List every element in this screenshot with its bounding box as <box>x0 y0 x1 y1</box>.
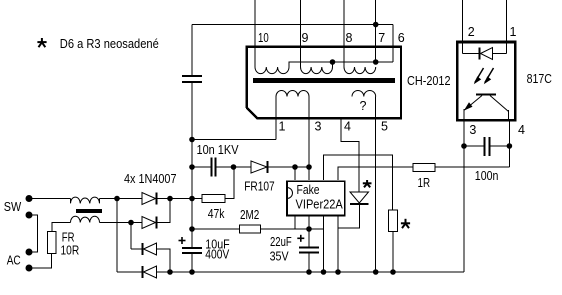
junction pin7 y24 <box>373 22 379 28</box>
junction x131 y222 <box>128 220 134 226</box>
wire choke bottom right <box>100 222 143 224</box>
choke core bar <box>76 209 102 213</box>
wire pin9 top <box>300 0 302 67</box>
optocoupler U2 817C box <box>457 42 515 120</box>
transformer winding 8-7 (top right) <box>344 67 376 74</box>
opto pin4 wire down <box>508 120 510 146</box>
wire D3 anode down <box>157 249 171 272</box>
svg-text:1: 1 <box>510 25 517 39</box>
svg-text:400V: 400V <box>205 247 230 261</box>
svg-text:22uF: 22uF <box>270 235 292 249</box>
opto phototransistor <box>476 94 496 96</box>
wire top horizontal bus y24 <box>192 24 393 26</box>
diode D6 (not fitted) <box>350 191 369 193</box>
wire pin1 horizontal y139 <box>192 139 276 141</box>
wire D2 cathode up <box>158 199 171 223</box>
junction x464 y146 <box>461 143 467 149</box>
wire pin6 <box>392 25 394 63</box>
junction x393 y272 <box>390 269 396 275</box>
junction x375 y272 <box>373 269 379 275</box>
capacitor 10uF 400V <box>182 247 202 249</box>
resistor R3 (not fitted) <box>389 210 398 232</box>
star D6 <box>363 180 372 187</box>
junction x295 y167 <box>292 164 298 170</box>
viper bottom pin x338 <box>337 216 339 273</box>
plus sign 10uF <box>179 237 186 244</box>
junction x192 y198 <box>189 196 195 202</box>
junction x309 y229 <box>306 226 312 232</box>
legend star <box>37 38 46 47</box>
junction x309 y167 <box>306 164 312 170</box>
viper bottom pin x309 with 22uF <box>308 216 310 247</box>
svg-text:10n 1KV: 10n 1KV <box>197 143 240 157</box>
transformer T1 CH-2012 body <box>247 47 401 119</box>
transformer winding ? (bottom right, open left end) <box>352 90 376 96</box>
svg-text:SW: SW <box>4 200 22 214</box>
svg-text:100n: 100n <box>475 169 499 183</box>
svg-text:10R: 10R <box>61 244 80 258</box>
viper bottom pin x295 <box>294 216 296 230</box>
transformer winding 1-3 (bottom left) <box>276 91 309 97</box>
resistor 1R <box>413 164 435 172</box>
svg-text:817C: 817C <box>527 72 552 86</box>
capacitor 100n <box>464 145 484 147</box>
plus sign 22uF <box>297 235 304 242</box>
junction x309 y272 <box>306 269 312 275</box>
junction x192 y167 <box>189 164 195 170</box>
resistor FR 10R <box>48 232 57 254</box>
opto pin1 wire <box>506 0 508 54</box>
junction link-7 <box>373 59 379 65</box>
svg-text:4x 1N4007: 4x 1N4007 <box>124 172 177 186</box>
viper bottom pin x323 <box>323 216 325 273</box>
wire pin4 down jog <box>341 119 359 193</box>
junction x170 y198 <box>167 196 173 202</box>
svg-text:CH-2012: CH-2012 <box>407 74 451 88</box>
capacitor C-top on x192 <box>191 25 193 76</box>
svg-text:3: 3 <box>469 123 476 137</box>
junction x509 y146 <box>507 143 513 149</box>
svg-text:Fake: Fake <box>297 183 320 197</box>
svg-text:47k: 47k <box>208 207 225 221</box>
svg-text:5: 5 <box>381 119 388 133</box>
diode D4 <box>117 271 142 273</box>
choke top winding <box>71 197 100 203</box>
svg-text:FR: FR <box>62 231 75 245</box>
wire SW bottom link to AC top <box>29 215 38 252</box>
svg-text:6: 6 <box>398 31 405 45</box>
transformer winding 10-x (top left) <box>255 67 289 74</box>
svg-text:35V: 35V <box>270 249 290 263</box>
diode D1 <box>142 193 156 205</box>
svg-text:8: 8 <box>346 31 353 45</box>
star R3 <box>401 219 410 228</box>
svg-text:7: 7 <box>378 31 385 45</box>
wire SW top to choke <box>29 198 71 200</box>
opto LED <box>463 53 479 55</box>
resistor 2M2 <box>192 228 240 230</box>
viper top pin x295 <box>294 167 296 180</box>
junction x117 y198 <box>114 196 120 202</box>
wire AC bottom to FR <box>29 254 52 269</box>
wire choke bottom left to FR <box>52 223 71 232</box>
viper top pin x338 feedback <box>338 167 413 180</box>
wire pin5 down <box>375 97 377 273</box>
IC U1 Fake VIPer22A <box>287 181 345 215</box>
choke bottom winding <box>71 216 100 222</box>
svg-text:1R: 1R <box>418 176 431 190</box>
wire pin8 top <box>343 0 345 67</box>
junction x170 y272 <box>167 269 173 275</box>
junction x192 y229 <box>189 226 195 232</box>
svg-text:4: 4 <box>518 123 525 137</box>
wire x131 down <box>130 223 132 250</box>
resistor 47k <box>192 198 202 200</box>
svg-text:AC: AC <box>7 254 21 268</box>
diode D2 <box>142 217 156 229</box>
svg-text:FR107: FR107 <box>244 179 275 193</box>
junction x192 y272 <box>189 269 195 275</box>
svg-text:10: 10 <box>258 31 269 45</box>
junction x192 y139 <box>189 137 195 143</box>
wire pin10 top <box>254 0 256 67</box>
wire x117 down to rail <box>116 199 118 273</box>
wire choke top right to bridge <box>100 198 143 200</box>
opto light arrows <box>474 68 494 84</box>
opto pin3 wire down <box>463 120 465 272</box>
svg-text:VIPer22A: VIPer22A <box>296 197 344 211</box>
svg-text:2: 2 <box>468 25 475 39</box>
svg-text:9: 9 <box>302 31 309 45</box>
wire 1R up to opto pin4 <box>508 146 510 167</box>
junction x323 y272 <box>321 269 327 275</box>
wire pin1 down <box>275 97 277 140</box>
junction x338 y272 <box>335 269 341 275</box>
wire pin3 down <box>308 97 310 181</box>
junction x233.5 y167 <box>231 164 237 170</box>
diode D3 <box>131 248 142 250</box>
capacitor 22uF 35V <box>299 247 319 249</box>
svg-text:?: ? <box>360 99 367 113</box>
bottom rail <box>157 271 465 273</box>
viper top pin x323 <box>324 155 393 210</box>
junction link-9 <box>330 59 336 65</box>
svg-text:3: 3 <box>315 119 322 133</box>
svg-text:2M2: 2M2 <box>240 208 259 222</box>
opto pin2 wire <box>462 0 464 54</box>
transformer core bar <box>253 78 395 83</box>
svg-text:D6 a R3 neosadené: D6 a R3 neosadené <box>60 37 159 51</box>
transformer link wire y62 <box>289 62 393 67</box>
diode FR107 <box>251 161 267 173</box>
svg-text:4: 4 <box>344 119 351 133</box>
wire winding9 right to link <box>332 62 334 67</box>
transformer winding 9-x (top middle) <box>301 67 333 74</box>
wire pin7 top <box>375 0 377 62</box>
svg-text:1: 1 <box>279 119 286 133</box>
